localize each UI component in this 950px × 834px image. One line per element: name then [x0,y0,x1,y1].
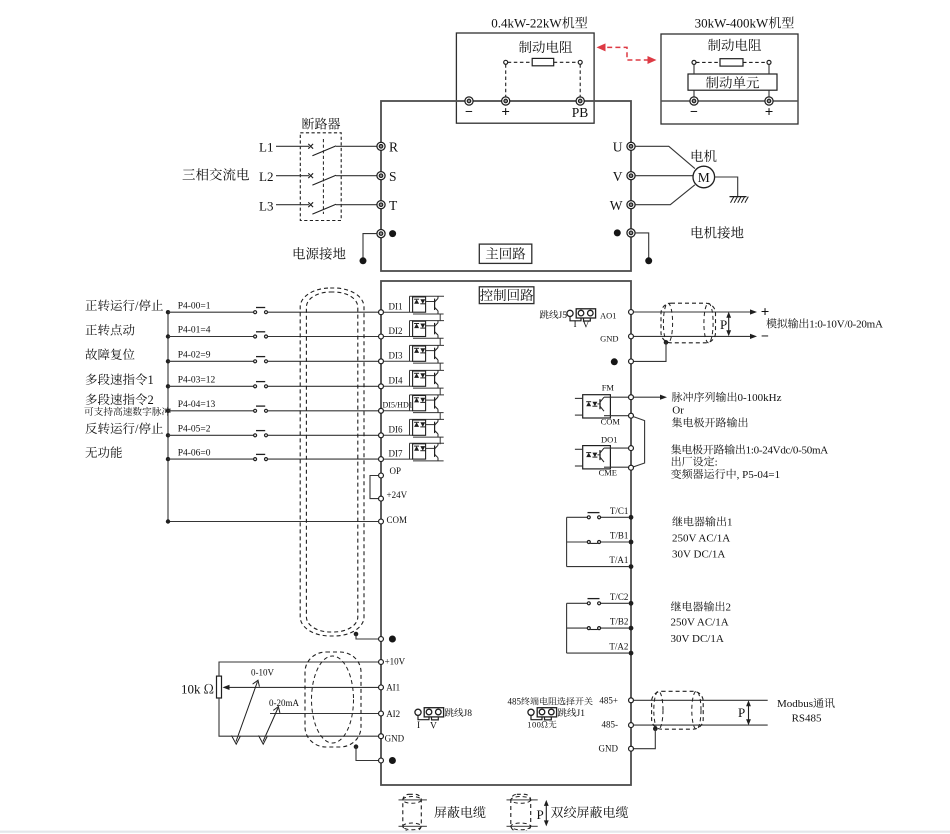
terminal DO1 [629,446,634,451]
svg-text:V: V [583,317,590,331]
terminal AI2 [379,711,384,716]
opto chain link wire [439,413,441,420]
breaker contact X L2 [308,173,313,178]
svg-text:I: I [417,717,420,731]
svg-text:0.4kW-22kW机型: 0.4kW-22kW机型 [491,13,587,32]
motor earth terminal [627,229,635,237]
wire opto to CME terminal [604,466,628,468]
svg-text:跳线J5: 跳线J5 [540,307,568,321]
wire V to motor [635,175,693,177]
terminal GND left [379,734,384,739]
relay contact NO T/C1 [587,516,590,519]
wire switch to terminal DI7 [268,458,379,460]
wire RB2 right to unit [768,64,770,74]
jumper J1 [528,709,534,715]
optocoupler DI4 [384,385,413,387]
motor earth symbol [730,196,747,198]
node RB1 left [504,60,508,64]
wire 485 shield drain [634,729,656,749]
terminal R [377,142,385,150]
svg-text:CME: CME [599,466,617,478]
bus junction dot [166,310,170,314]
terminal T/B1 [629,540,634,545]
opto chain link wire [439,363,441,370]
svg-text:L1: L1 [259,137,273,156]
svg-text:T: T [389,194,398,214]
svg-text:制动单元: 制动单元 [706,71,760,91]
svg-text:P: P [738,702,745,721]
svg-text:继电器输出2: 继电器输出2 [671,598,732,614]
wire dashed PB drop A [579,64,581,97]
terminal DI1 [379,310,384,315]
svg-text:P4-05=2: P4-05=2 [178,421,211,435]
svg-text:P: P [537,804,544,823]
wire T/C2 [567,602,588,604]
opto chain link wire [439,437,441,444]
wire AO1 shield drain [634,342,666,361]
svg-text:S: S [389,165,397,185]
svg-text:脉冲序列输出0-100kHz: 脉冲序列输出0-100kHz [672,389,782,405]
svg-text:GND: GND [599,742,619,755]
analog shield drain dot [354,744,359,749]
bus junction dot [166,384,170,388]
svg-text:RS485: RS485 [792,710,822,726]
wire switch to terminal DI4 [268,385,379,387]
wire W to motor [635,185,695,205]
wire dashed RB1 left [508,61,533,63]
switch S5 [254,409,257,412]
svg-text:故障复位: 故障复位 [85,345,136,363]
wire FM to terminal [604,396,628,398]
node RB2 left [692,60,696,64]
wire U to motor [635,146,695,168]
svg-text:反转运行/停止: 反转运行/停止 [85,419,163,437]
svg-text:+: + [501,101,510,122]
relay contact NC T/B1 [587,541,590,544]
svg-text:PB: PB [572,101,589,121]
bus junction dot [166,433,170,437]
terminal DI4 [379,384,384,389]
wire T/A1 [567,566,629,568]
motor M1 [693,166,715,188]
wire switch to terminal DI5/HD1 [268,410,379,412]
wire bus to switch S4 [168,385,254,387]
svg-text:电机接地: 电机接地 [690,222,744,242]
terminal + of box B [765,97,773,105]
wire pot top to +10V [219,662,378,676]
svg-text:断路器: 断路器 [301,114,340,133]
wire breaker to terminal R [336,145,377,147]
terminal T/C1 [629,515,634,520]
svg-text:双绞屏蔽电缆: 双绞屏蔽电缆 [551,802,629,821]
wire power earth drop [363,234,377,259]
svg-text:250V AC/1A: 250V AC/1A [672,530,730,546]
svg-text:10k Ω: 10k Ω [181,679,214,698]
wire breaker to terminal S [336,175,377,177]
svg-text:跳线J8: 跳线J8 [445,705,473,719]
svg-text:DI4: DI4 [389,374,403,387]
wire bus to switch S3 [168,360,254,362]
breaker contact X L1 [308,144,313,149]
wire L1 to breaker [276,145,309,147]
relay left bus wire [566,517,568,566]
switch S2 [254,335,257,338]
svg-text:+24V: +24V [387,488,408,501]
svg-text:FM: FM [602,382,615,394]
svg-text:W: W [610,194,623,214]
node RB2 right [767,60,771,64]
wire AI1 with wiper arrow [226,686,378,688]
485 shield drain dot [653,727,658,732]
svg-text:正转点动: 正转点动 [85,320,136,338]
control circuit label box [479,287,534,304]
breaker blade L3 [312,204,336,214]
resistor RB2 [720,59,743,66]
terminal GND 485 [629,746,634,751]
wire 485- out [634,724,768,726]
wire bus to switch S1 [168,311,254,313]
earth dot below COM [389,636,396,643]
svg-text:P4-03=12: P4-03=12 [178,372,216,386]
wire AO1 out [634,311,751,313]
svg-text:主回路: 主回路 [485,243,526,263]
relay contact NO T/C2 [587,602,590,605]
shield cable tube outer [300,288,364,636]
svg-text:V: V [613,165,623,185]
svg-text:P4-06=0: P4-06=0 [178,444,211,458]
power earth terminal [377,230,385,238]
wire T/B2 [567,627,588,629]
svg-text:T/B1: T/B1 [610,529,629,542]
switch S7 [254,458,257,461]
breaker QF dashed box [300,133,341,221]
svg-text:正转运行/停止: 正转运行/停止 [85,296,163,314]
relay contact NC T/B2 [587,627,590,630]
terminal V [627,172,635,180]
opto chain link wire [439,388,441,395]
motor earth dot inside [614,229,621,236]
svg-text:0-10V: 0-10V [251,666,274,679]
braking unit box [688,74,777,90]
earth terminal right [629,359,634,364]
terminal COM left [379,519,384,524]
wire opto to COM terminal [604,415,628,417]
terminal 485- [629,723,634,728]
wire switch to terminal DI2 [268,336,379,338]
switch S6 [254,434,257,437]
wire switch to terminal DI6 [268,434,379,436]
svg-text:多段速指令1: 多段速指令1 [85,370,154,388]
analog shield tube inner [312,656,354,743]
terminal PB [576,97,584,105]
svg-text:T/A2: T/A2 [609,640,628,653]
svg-text:+: + [765,101,774,122]
optocoupler DI3 [384,360,413,362]
svg-text:0-20mA: 0-20mA [269,696,299,709]
terminal T/C2 [629,601,634,606]
svg-text:P4-01=4: P4-01=4 [178,322,211,336]
red dashed interchange arrow [599,47,652,60]
braking resistor box 30-400kW [661,34,798,124]
selector slash 0-20mA [263,708,278,742]
optocoupler DI2 [384,336,413,338]
svg-text:GND: GND [600,332,618,344]
terminal DI5/HD1 [379,408,384,413]
wire dashed minus drop A [505,64,507,97]
wire L3 to breaker [276,204,309,206]
bus junction dot [166,409,170,413]
wire FM arrow out [634,396,660,398]
relay left bus wire [566,603,568,653]
svg-text:DI2: DI2 [389,324,403,337]
wire L2 to breaker [276,175,309,177]
wire 485+ out [634,699,768,701]
twist arrow 485 [748,704,750,722]
shield drain junction dot [354,632,359,637]
wire unit to minus terminal B [693,90,695,97]
svg-text:P: P [720,314,727,333]
optocoupler DI6 [384,434,413,436]
selector slash 0-10V [236,682,258,742]
wire bus to switch S6 [168,434,254,436]
switch S4 [254,385,257,388]
svg-text:T/A1: T/A1 [609,553,628,566]
bottom page divider line [0,831,950,833]
optocoupler DI5/HD1 [384,410,413,412]
opto chain link wire [439,314,441,321]
optocoupler DI7 [384,458,413,460]
svg-text:DI1: DI1 [389,300,403,313]
terminal T/A2 [629,651,634,656]
earth dot right [611,358,618,365]
terminal DI2 [379,334,384,339]
earth terminal analog [379,758,384,763]
wire bus to switch S2 [168,336,254,338]
svg-text:I: I [574,316,577,330]
wire analog shield drain [356,747,378,761]
svg-text:模拟输出1:0-10V/0-20mA: 模拟输出1:0-10V/0-20mA [766,316,883,332]
svg-text:继电器输出1: 继电器输出1 [672,513,733,529]
wire T/A2 [567,652,629,654]
switch S1 [254,311,257,314]
svg-text:集电极开路输出: 集电极开路输出 [672,414,749,430]
terminal GND right top [629,334,634,339]
jumper J5 [567,310,573,316]
svg-text:制动电阻: 制动电阻 [519,36,573,56]
breaker link dashed line [322,139,324,214]
terminal OP [379,473,384,478]
svg-text:GND: GND [385,732,405,745]
wire breaker to terminal T [336,204,377,206]
wire T/C1 [567,516,588,518]
svg-text:−: − [690,101,698,121]
svg-text:无功能: 无功能 [85,443,123,461]
svg-text:制动电阻: 制动电阻 [708,34,762,54]
left DI bus wire [167,312,169,521]
jumper J8 [415,709,421,715]
wire pot bottom to GND [219,698,378,736]
svg-text:DI5/HD1: DI5/HD1 [383,400,413,411]
power earth dot inside [389,230,396,237]
optocoupler DI1 [384,311,413,313]
svg-text:DO1: DO1 [601,433,618,445]
svg-text:COM: COM [387,513,408,526]
svg-text:三相交流电: 三相交流电 [182,164,250,184]
svg-text:T/C1: T/C1 [610,504,629,517]
svg-text:485-: 485- [602,718,619,731]
terminal +10V [379,660,384,665]
wire RB2 left to unit [693,64,695,74]
svg-text:L2: L2 [259,166,273,185]
svg-text:DI3: DI3 [389,349,403,362]
svg-text:P4-00=1: P4-00=1 [178,297,211,311]
wire DO1 to terminal [604,447,628,449]
earth terminal below COM [379,637,384,642]
wire dashed RB1 right [554,61,579,63]
wire dashed RB2 left [696,61,720,63]
power earth end dot [360,257,367,264]
svg-text:V: V [430,718,437,732]
svg-text:R: R [389,136,398,156]
earth dot analog [389,757,396,764]
svg-text:DI6: DI6 [389,423,403,436]
bus junction dot [166,359,170,363]
svg-text:P4-02=9: P4-02=9 [178,347,211,361]
resistor RB1 [532,58,554,65]
svg-text:250V AC/1A: 250V AC/1A [671,614,729,630]
optocoupler FM [583,395,611,418]
svg-text:控制回路: 控制回路 [480,284,534,304]
svg-text:OP: OP [390,464,402,477]
svg-text:P4-04=13: P4-04=13 [178,396,216,410]
wire shield drain to earth terminal [356,634,378,639]
main circuit block [381,101,631,271]
breaker blade L2 [312,175,336,185]
breaker blade L1 [312,146,336,156]
wire OP to +24V jumper [370,476,378,499]
bus junction dot [166,457,170,461]
terminal T/A1 [629,564,634,569]
terminal COM right [629,413,634,418]
AO1 shield capsule [661,303,716,343]
twist arrow AO1 [728,316,730,333]
485 shield capsule [652,691,704,729]
svg-text:30kW-400kW机型: 30kW-400kW机型 [695,13,795,32]
svg-text:屏蔽电缆: 屏蔽电缆 [434,802,486,821]
wire motor to earth [715,177,738,196]
legend shielded cable lines [399,799,427,801]
potentiometer RP1 [217,676,222,698]
main circuit label box [479,244,532,263]
terminal CME [629,465,634,470]
svg-text:L3: L3 [259,196,273,215]
svg-text:COM: COM [601,416,621,428]
terminal DI6 [379,433,384,438]
svg-text:−: − [465,101,473,121]
svg-text:M: M [698,166,710,186]
legend twist arrow [545,804,547,823]
opto chain link wire [439,338,441,345]
wire motor earth drop [635,233,649,259]
node RB1 right [578,60,582,64]
optocoupler DO1 [583,446,611,469]
terminal T/B2 [629,626,634,631]
terminal DI3 [379,359,384,364]
terminal U [627,142,635,150]
svg-text:100Ω无: 100Ω无 [527,718,557,730]
legend shielded cable tube [403,794,422,831]
terminal - of box A [465,97,473,105]
bus junction dot [166,334,170,338]
svg-text:DI7: DI7 [389,447,403,460]
svg-text:T/B2: T/B2 [610,615,629,628]
wire bus to switch S5 [168,410,254,412]
wire COM to bus [168,521,378,523]
svg-text:30V DC/1A: 30V DC/1A [671,630,724,646]
svg-text:AI2: AI2 [386,707,400,720]
wire box B bus line [661,100,798,102]
wire switch to terminal DI1 [268,311,379,313]
shield cable tube inner [306,292,357,632]
terminal S [377,172,385,180]
terminal AO1 [629,310,634,315]
wire bus to switch S7 [168,458,254,460]
analog shield tube outer [305,652,361,747]
svg-text:+10V: +10V [385,655,406,668]
terminal T [377,201,385,209]
wire T/B1 [567,541,588,543]
braking resistor box 0.4-22kW [456,33,594,123]
svg-text:可支持高速数字脉冲: 可支持高速数字脉冲 [84,404,171,418]
svg-text:电源接地: 电源接地 [292,243,346,263]
wire unit to plus terminal B [768,90,770,97]
svg-text:AI1: AI1 [386,681,400,694]
terminal + of box A [502,97,510,105]
legend twisted pair lines [507,799,538,801]
AO1 shield drain dot [664,340,669,345]
bus bottom junction dot [166,519,170,523]
breaker contact X L3 [308,202,313,207]
switch S3 [254,360,257,363]
wire GND out [634,335,751,337]
terminal FM [629,395,634,400]
svg-text:T/C2: T/C2 [610,590,629,603]
wire AI2 [270,713,378,715]
control circuit block [381,281,631,785]
terminal - of box B [690,97,698,105]
svg-text:AO1: AO1 [600,309,617,321]
motor earth end dot [645,257,652,264]
wire COM-CME external link [633,417,644,467]
svg-text:跳线J1: 跳线J1 [558,705,586,719]
wire switch to terminal DI3 [268,360,379,362]
svg-text:485+: 485+ [599,693,618,706]
terminal AI1 [379,685,384,690]
wire dashed RB2 right [743,61,767,63]
svg-text:U: U [613,136,623,156]
terminal DI7 [379,457,384,462]
svg-text:电机: 电机 [690,145,718,165]
terminal W [627,201,635,209]
terminal 485+ [629,698,634,703]
legend twisted pair tube [511,794,531,831]
svg-text:变频器运行中, P5-04=1: 变频器运行中, P5-04=1 [671,466,780,482]
terminal +24V [379,496,384,501]
svg-text:30V DC/1A: 30V DC/1A [672,546,725,562]
